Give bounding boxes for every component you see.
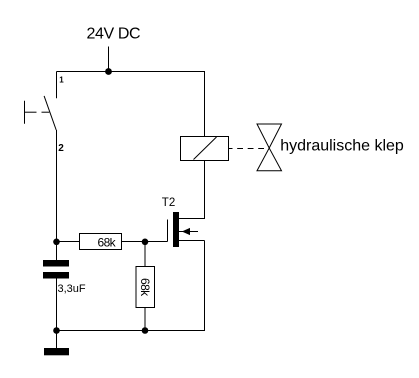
svg-text:hydraulische klep: hydraulische klep	[280, 138, 404, 155]
svg-text:24V DC: 24V DC	[87, 26, 141, 43]
svg-text:68k: 68k	[98, 236, 117, 250]
svg-text:T2: T2	[162, 197, 175, 209]
svg-text:2: 2	[58, 143, 64, 154]
svg-text:68k: 68k	[138, 278, 152, 297]
svg-text:3,3uF: 3,3uF	[58, 283, 86, 295]
svg-text:1: 1	[59, 75, 64, 84]
